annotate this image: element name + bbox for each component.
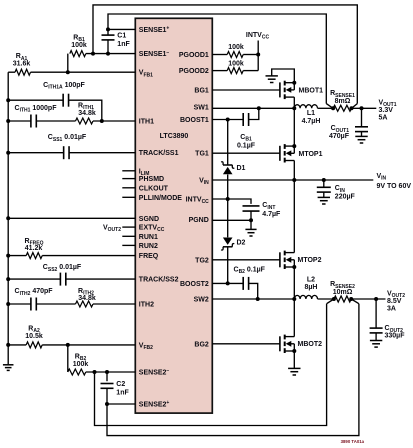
- svg-text:RUN1: RUN1: [139, 234, 158, 241]
- svg-text:10.5k: 10.5k: [25, 333, 43, 340]
- svg-text:CIN: CIN: [335, 185, 345, 194]
- wire MTOP1 source to SW1 node: [293, 108, 295, 146]
- svg-text:CB2 0.1µF: CB2 0.1µF: [234, 266, 266, 275]
- resistor pull-up 100k PGOOD1: [227, 52, 243, 58]
- wire SENSE1+ loop top: [108, 14, 326, 104]
- node VIN MTOP junction: [292, 178, 296, 182]
- capacitor COUT1: [355, 126, 368, 128]
- node rail SGND tap: [6, 216, 10, 220]
- wire D2 cathode to BOOST2: [227, 247, 229, 284]
- svg-text:MBOT2: MBOT2: [298, 341, 323, 348]
- wire BG2 row: [212, 343, 280, 345]
- wire RITH2 to ITH2 pin: [93, 303, 135, 305]
- wire ILIM stub: [122, 170, 135, 172]
- inductor L1: [294, 105, 317, 109]
- wire D2 anode from INTVCC: [227, 199, 229, 237]
- svg-text:100k: 100k: [71, 42, 87, 49]
- svg-text:RUN2: RUN2: [139, 243, 158, 250]
- resistor RB1: [70, 51, 86, 57]
- wire SENSE2- row: [86, 371, 136, 373]
- wire SENSE2+ pin row: [107, 403, 135, 405]
- svg-text:TG2: TG2: [195, 257, 209, 264]
- wire MBOT1 drain to SW1: [293, 97, 295, 108]
- node rail CSS1 tap: [6, 151, 10, 155]
- resistor RSENSE1: [333, 105, 351, 111]
- node SENSE2- C2 junction: [105, 370, 109, 374]
- svg-text:L2: L2: [307, 277, 315, 284]
- wire CITH2 to RITH2: [36, 303, 75, 305]
- wire RSENSE2 to VOUT2 terminal: [351, 298, 385, 300]
- wire C1 bottom lead: [107, 40, 109, 54]
- wire FREQ row left: [8, 255, 26, 257]
- svg-text:PGOOD1: PGOOD1: [179, 52, 209, 59]
- svg-text:1nF: 1nF: [117, 41, 130, 48]
- capacitor CB1: [242, 113, 244, 126]
- svg-text:CINT: CINT: [262, 202, 275, 211]
- node rail CITH1A tap: [6, 98, 10, 102]
- transistor MBOT1: [279, 82, 281, 97]
- svg-text:ITH2: ITH2: [139, 302, 154, 309]
- wire left SGND rail vertical: [7, 72, 9, 364]
- svg-text:9V TO 60V: 9V TO 60V: [377, 183, 412, 190]
- wire ITH1 row rail to CITH1: [8, 120, 31, 122]
- svg-text:470µF: 470µF: [329, 133, 350, 140]
- wire CINT bottom lead: [250, 211, 252, 220]
- wire RA1 to VFB1 pin: [31, 71, 136, 73]
- wire RSENSE1 to VOUT1 terminal: [352, 107, 377, 109]
- transistor MTOP2: [279, 252, 281, 267]
- svg-text:SENSE2−: SENSE2−: [139, 368, 170, 376]
- wire RSENSE2 kelvin right diagonal: [351, 299, 359, 304]
- wire MTOP1 drain to VIN rail: [293, 161, 295, 181]
- svg-text:8.5V: 8.5V: [387, 298, 402, 305]
- svg-text:SENSE2+: SENSE2+: [139, 400, 170, 408]
- svg-text:C2: C2: [116, 381, 125, 388]
- node rail ITH1 tap: [6, 119, 10, 123]
- wire RSENSE2 kelvin left diagonal: [327, 299, 334, 304]
- wire SW2 row chip to CB2 corner: [212, 298, 257, 300]
- node RSENSE1 right terminal: [350, 106, 354, 110]
- wire RA2 to VFB2 pin: [42, 344, 135, 346]
- wire VFB2 row rail to RA2: [8, 344, 26, 346]
- wire BOOST2 row: [212, 282, 243, 284]
- svg-text:1nF: 1nF: [116, 390, 129, 397]
- node VFB1 divider junction: [66, 70, 70, 74]
- capacitor CITH1: [30, 115, 32, 128]
- svg-text:3890 TA01a: 3890 TA01a: [341, 439, 365, 444]
- wire SENSE1- row: [86, 53, 136, 55]
- wire SENSE2+ loop bottom: [107, 304, 359, 436]
- svg-text:8mΩ: 8mΩ: [335, 98, 351, 105]
- svg-text:PHSMD: PHSMD: [139, 176, 164, 183]
- wire SW1 CB1 corner to switch node: [259, 107, 295, 109]
- svg-text:INTVCC: INTVCC: [246, 32, 270, 41]
- wire D1 cathode from BOOST1: [227, 120, 229, 166]
- op-amp U1 LTC3890 controller IC body: [135, 18, 212, 413]
- node RSENSE2 right terminal: [349, 297, 353, 301]
- svg-text:D1: D1: [237, 165, 246, 172]
- wire MBOT2 drain to SW2 node: [293, 299, 295, 337]
- node rail VFB2 tap: [6, 343, 10, 347]
- svg-text:L1: L1: [307, 110, 315, 117]
- svg-text:FREQ: FREQ: [139, 253, 159, 260]
- resistor RSENSE2: [334, 296, 351, 302]
- ground MBOT1 source: [266, 75, 278, 77]
- wire RFREQ to FREQ pin: [42, 255, 135, 257]
- wire BG1 row: [212, 89, 280, 91]
- node SW1 CB1 junction: [257, 106, 261, 110]
- node COUT1 tap: [360, 106, 364, 110]
- wire L2 to RSENSE2: [318, 298, 334, 300]
- wire VFB1 node up to RB1: [67, 54, 69, 73]
- svg-text:100k: 100k: [228, 60, 244, 67]
- capacitor CSS1: [63, 146, 65, 159]
- wire CB2 to SW2: [249, 283, 258, 299]
- svg-text:MTOP2: MTOP2: [298, 257, 322, 264]
- wire CB1 to SW1: [249, 108, 259, 119]
- svg-text:34.8k: 34.8k: [78, 295, 96, 302]
- wire INTVCC pull-up vertical: [257, 41, 259, 71]
- wire BOOST1 row: [212, 119, 243, 121]
- capacitor COUT2: [370, 327, 383, 329]
- svg-text:SENSE1−: SENSE1−: [139, 50, 170, 58]
- node PGND CINT junction: [249, 218, 253, 222]
- svg-text:MBOT1: MBOT1: [299, 87, 324, 94]
- svg-text:8µH: 8µH: [305, 284, 318, 291]
- resistor RA2: [26, 342, 42, 348]
- svg-text:PGOOD2: PGOOD2: [179, 68, 209, 75]
- svg-text:CITH1A 100pF: CITH1A 100pF: [43, 82, 85, 91]
- wire PGOOD2 to INTVCC rail: [243, 70, 258, 72]
- svg-text:3.3V: 3.3V: [379, 107, 394, 114]
- wire SGND row: [8, 217, 135, 219]
- wire RSENSE1 kelvin right diagonal: [352, 104, 358, 109]
- node SENSE1+ junction: [106, 27, 110, 31]
- transistor MTOP1: [279, 146, 281, 161]
- capacitor CSS2: [59, 273, 61, 286]
- wire COUT1 bottom lead: [361, 132, 363, 137]
- wire TRACK/SS2 row left: [8, 278, 60, 280]
- wire RITH1 to ITH1 pin: [93, 120, 135, 122]
- wire PGOOD2 row: [212, 70, 227, 72]
- node rail ITH2 tap: [6, 302, 10, 306]
- wire C2 top lead: [106, 372, 108, 381]
- wire MBOT1 source hook to ground: [272, 69, 295, 83]
- node PGOOD1 INTVCC junction: [256, 53, 260, 57]
- svg-text:D2: D2: [237, 239, 246, 246]
- wire MTOP2 source to SW2 node: [293, 267, 295, 299]
- ground CIN: [318, 196, 330, 198]
- wire PGND row: [212, 219, 251, 221]
- wire PGOOD1 to INTVCC rail: [243, 54, 258, 56]
- svg-text:PLLIN/MODE: PLLIN/MODE: [139, 195, 182, 202]
- svg-text:100k: 100k: [228, 44, 244, 51]
- svg-text:CLKOUT: CLKOUT: [139, 185, 169, 192]
- svg-text:BOOST1: BOOST1: [180, 117, 209, 124]
- svg-text:41.2k: 41.2k: [25, 245, 43, 252]
- ground COUT1: [355, 135, 367, 137]
- node BOOST1 D1 junction: [226, 118, 230, 122]
- wire VFB1 row rail to RA1: [8, 71, 15, 73]
- resistor pull-up 100k PGOOD2: [227, 68, 243, 74]
- svg-text:CSS2 0.01µF: CSS2 0.01µF: [43, 264, 82, 273]
- node INTVCC diode junction: [226, 197, 230, 201]
- capacitor CINT: [243, 205, 260, 207]
- svg-text:PGND: PGND: [189, 217, 209, 224]
- svg-text:3A: 3A: [387, 305, 396, 312]
- svg-text:TRACK/SS2: TRACK/SS2: [139, 277, 179, 284]
- wire RUN2 stub: [122, 244, 135, 246]
- ground COUT2: [370, 340, 382, 342]
- ground PGND symbol: [245, 228, 256, 230]
- ground MBOT2 source: [288, 367, 300, 369]
- diode D2 schottky: [223, 238, 233, 245]
- wire VIN row: [212, 179, 373, 181]
- svg-text:100k: 100k: [73, 361, 89, 368]
- transistor MBOT2: [279, 336, 281, 351]
- wire PHSMD stub: [122, 178, 135, 180]
- wire TRACK/SS1 row left: [8, 152, 63, 154]
- wire SW2 to switch node: [258, 298, 295, 300]
- svg-text:C1: C1: [117, 32, 126, 39]
- wire MBOT2 source to ground: [293, 351, 295, 368]
- node ITH1 CITH1A junction: [100, 119, 104, 123]
- svg-text:CITH2 470pF: CITH2 470pF: [15, 288, 54, 297]
- capacitor CB2: [242, 277, 244, 290]
- node SENSE2+ junction: [105, 402, 109, 406]
- svg-text:BOOST2: BOOST2: [180, 281, 209, 288]
- capacitor CIN: [317, 186, 331, 188]
- wire SENSE1- loop top: [93, 5, 357, 104]
- svg-text:MTOP1: MTOP1: [299, 151, 323, 158]
- wire VFB2 node down to RB2: [67, 345, 69, 372]
- node RSENSE1 left terminal: [331, 106, 335, 110]
- wire SENSE2- loop bottom: [95, 304, 327, 426]
- wire COUT2 lead: [375, 299, 377, 328]
- wire RSENSE1 kelvin left diagonal: [326, 104, 333, 109]
- capacitor C2: [101, 383, 114, 385]
- node rail RFREQ tap: [6, 254, 10, 258]
- resistor RFREQ: [26, 253, 42, 259]
- wire CIN lead: [323, 180, 325, 188]
- svg-text:31.6k: 31.6k: [13, 61, 31, 68]
- svg-text:4.7µF: 4.7µF: [262, 211, 281, 218]
- svg-text:34.8k: 34.8k: [78, 110, 96, 117]
- svg-text:4.7µH: 4.7µH: [302, 118, 321, 125]
- node rail CSS2 tap: [6, 277, 10, 281]
- svg-text:VOUT2: VOUT2: [103, 225, 121, 234]
- svg-text:BG1: BG1: [194, 88, 209, 95]
- svg-text:SW1: SW1: [194, 105, 209, 112]
- wire ITH2 row rail to CITH2: [8, 303, 31, 305]
- svg-text:5A: 5A: [379, 114, 388, 121]
- node RSENSE2 left terminal: [332, 297, 336, 301]
- resistor RITH1: [76, 118, 94, 124]
- wire TG1 row: [212, 152, 280, 154]
- wire CSS2 to TRACK/SS2 pin: [66, 278, 136, 280]
- node SENSE1- C1 junction: [106, 52, 110, 56]
- svg-text:SW2: SW2: [194, 296, 209, 303]
- svg-text:BG2: BG2: [194, 341, 209, 348]
- diode D1 schottky: [223, 167, 233, 174]
- capacitor C1: [102, 34, 115, 36]
- wire CITH1 to RITH1: [36, 120, 75, 122]
- svg-text:LTC3890: LTC3890: [160, 133, 189, 140]
- wire COUT2 bottom lead: [375, 333, 377, 340]
- wire TG2 row: [212, 259, 280, 261]
- wire COUT1 lead: [361, 108, 363, 127]
- resistor RB2: [68, 369, 86, 375]
- svg-text:0.1µF: 0.1µF: [237, 143, 256, 150]
- resistor RITH2: [76, 301, 94, 307]
- svg-text:CB1: CB1: [240, 134, 252, 143]
- svg-text:220µF: 220µF: [335, 194, 356, 201]
- capacitor CITH2: [30, 298, 32, 311]
- wire PGOOD1 row: [212, 54, 227, 56]
- node SW2 CB2 junction: [256, 297, 260, 301]
- wire D1 anode to INTVCC: [227, 175, 229, 200]
- node SENSE2- kelvin junction: [93, 370, 97, 374]
- ground left rail SGND symbol: [3, 364, 14, 366]
- wire SENSE1+ pin row: [108, 28, 135, 30]
- node SW2 switch node junction: [292, 297, 296, 301]
- wire SW1 row chip to CB1 corner: [212, 107, 258, 109]
- svg-text:ITH1: ITH1: [139, 119, 154, 126]
- node VIN CIN tap: [322, 178, 326, 182]
- inductor L2: [294, 295, 317, 299]
- svg-text:10mΩ: 10mΩ: [333, 289, 353, 296]
- node VFB2 divider junction: [66, 343, 70, 347]
- node COUT2 tap: [374, 297, 378, 301]
- node BOOST2 D2 junction: [226, 281, 230, 285]
- svg-text:SENSE1+: SENSE1+: [139, 26, 170, 34]
- wire CSS1 to TRACK/SS1 pin: [69, 152, 135, 154]
- svg-text:SGND: SGND: [139, 216, 159, 223]
- capacitor CITH1A: [62, 94, 64, 107]
- svg-text:VIN: VIN: [377, 173, 387, 182]
- wire INTVCC row: [212, 199, 251, 204]
- wire EXTVCC stub: [122, 226, 135, 228]
- wire CITH1A branch left: [8, 99, 63, 101]
- svg-text:330µF: 330µF: [385, 332, 406, 339]
- svg-text:CSS1 0.01µF: CSS1 0.01µF: [48, 134, 87, 143]
- wire PGND down to ground: [250, 220, 252, 229]
- wire CLKOUT stub: [122, 187, 135, 189]
- wire L1 to RSENSE1: [318, 107, 334, 109]
- wire C2 bottom lead: [106, 388, 108, 404]
- wire CITH1A branch right and down: [69, 100, 102, 121]
- wire CIN bottom lead: [323, 192, 325, 197]
- resistor RA1: [15, 69, 31, 75]
- wire RUN1 stub: [122, 235, 135, 237]
- svg-text:TG1: TG1: [195, 150, 209, 157]
- node SENSE1- kelvin junction: [91, 52, 95, 56]
- wire PLLIN/MODE stub: [122, 196, 135, 198]
- svg-text:TRACK/SS1: TRACK/SS1: [139, 150, 179, 157]
- node SW1 switch node junction: [292, 106, 296, 110]
- wire MTOP2 drain to VIN rail: [293, 180, 295, 253]
- wire C1 top lead: [107, 29, 109, 35]
- svg-text:CITH1 1000pF: CITH1 1000pF: [15, 105, 58, 114]
